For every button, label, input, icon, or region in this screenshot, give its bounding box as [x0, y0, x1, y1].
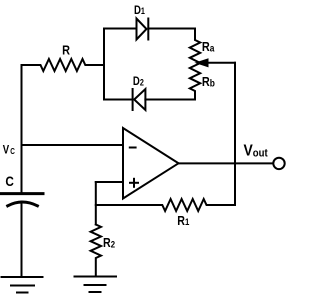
- op-amp plus sign: [130, 182, 138, 184]
- wire plus node vertical: [95, 182, 97, 225]
- potentiometer Ra Rb body: [190, 29, 200, 100]
- wire left rail vertical: [21, 65, 23, 193]
- wire wiper to right vertical: [205, 62, 235, 64]
- wire rail below capacitor to ground: [21, 202, 23, 277]
- wire D2 right lead to pot bottom: [145, 99, 195, 101]
- wire non-inverting input: [96, 181, 123, 183]
- wire right vertical (wiper to R1): [234, 63, 236, 205]
- resistor R: [22, 59, 105, 71]
- svg-text:D1: D1: [134, 4, 145, 17]
- op-amp U1: [123, 128, 179, 199]
- svg-text:R1: R1: [177, 213, 189, 228]
- wire D1 anode lead: [104, 28, 137, 30]
- wire D1 cathode to pot top: [148, 28, 195, 30]
- wire diode-branch left vertical: [103, 29, 105, 100]
- svg-text:R: R: [62, 43, 70, 58]
- capacitor C curved plate: [8, 202, 38, 206]
- wire inverting input: [22, 144, 124, 146]
- potentiometer wiper arrow: [196, 59, 208, 67]
- capacitor C top plate: [2, 192, 44, 195]
- diode D2: [132, 89, 134, 110]
- ground (left, under C): [2, 276, 43, 278]
- svg-text:R2: R2: [103, 235, 115, 250]
- terminal Vout circle: [273, 158, 284, 169]
- resistor R1: [96, 199, 235, 211]
- svg-text:Ra: Ra: [202, 39, 215, 54]
- svg-text:Rb: Rb: [202, 74, 215, 89]
- diode D1: [137, 19, 147, 40]
- resistor R2: [91, 225, 101, 277]
- ground (under R2): [75, 276, 117, 278]
- svg-text:D2: D2: [133, 75, 144, 88]
- svg-text:C: C: [5, 173, 13, 189]
- wire output: [179, 162, 274, 164]
- svg-text:Vout: Vout: [244, 142, 269, 160]
- wire D2 left lead: [104, 99, 133, 101]
- svg-text:VC: VC: [3, 144, 16, 157]
- op-amp minus sign: [130, 147, 136, 149]
